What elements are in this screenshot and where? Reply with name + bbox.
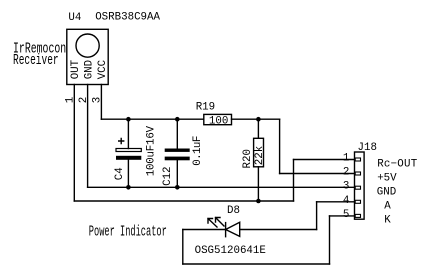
svg-text:OSRB38C9AA: OSRB38C9AA — [95, 12, 160, 24]
svg-text:R19: R19 — [196, 102, 215, 114]
connector J18 body — [355, 152, 365, 219]
LED D8 cathode bar — [225, 223, 227, 237]
J18 pin3 stub — [355, 186, 360, 189]
resistor R19 body — [204, 114, 232, 124]
svg-text:GND: GND — [377, 187, 396, 199]
C4 plus sign — [119, 139, 124, 144]
svg-text:1: 1 — [343, 153, 349, 165]
LED D8 triangle — [226, 222, 240, 236]
svg-text:GND: GND — [83, 60, 95, 79]
svg-text:3: 3 — [343, 181, 349, 193]
svg-text:5: 5 — [343, 209, 349, 221]
svg-text:C4: C4 — [114, 167, 126, 180]
wire cathode loop up to pin5 — [329, 216, 331, 264]
wire anode up to pin4 — [316, 202, 318, 230]
wire into J18 pin4 — [317, 201, 355, 203]
junction C12 on GND rail — [175, 185, 180, 190]
capacitor C12 top plate — [165, 149, 190, 152]
wire LED anode right — [240, 229, 317, 231]
D8 emission arrow 2 — [216, 218, 225, 227]
svg-text:100: 100 — [209, 115, 228, 127]
wire U4 pin2 vertical — [87, 85, 89, 188]
wire into J18 pin5 — [330, 215, 355, 217]
svg-text:22k: 22k — [254, 146, 266, 165]
wire LED cathode left — [183, 229, 226, 231]
junction C4 on GND rail — [126, 185, 131, 190]
svg-text:4: 4 — [343, 195, 349, 207]
svg-text:2: 2 — [343, 167, 349, 179]
svg-text:Rc−OUT: Rc−OUT — [377, 159, 418, 171]
wire OUT to connector pin1 vertical — [293, 160, 295, 202]
junction R20 bottom on OUT line — [256, 199, 261, 204]
svg-text:R20: R20 — [242, 149, 254, 168]
svg-text:C12: C12 — [162, 166, 174, 185]
wire U4 pin1 vertical — [73, 85, 75, 202]
svg-text:J18: J18 — [358, 142, 377, 154]
svg-text:OUT: OUT — [70, 59, 82, 79]
svg-text:100uF16V: 100uF16V — [145, 125, 157, 176]
svg-text:0.1uF: 0.1uF — [192, 136, 204, 166]
resistor R20 bottom lead — [257, 167, 259, 201]
svg-text:K: K — [384, 215, 391, 227]
U4 lens circle — [76, 34, 99, 57]
J18 pin4 stub — [355, 200, 360, 203]
wire into J18 pin1 — [294, 159, 355, 161]
svg-text:D8: D8 — [227, 205, 240, 217]
capacitor C4 negative plate — [116, 156, 141, 160]
wire into J18 pin2 — [280, 173, 355, 175]
IR receiver U4 body — [67, 29, 108, 84]
svg-text:A: A — [384, 201, 391, 213]
wire VCC rail to R19 — [101, 118, 203, 120]
capacitor C4 top lead — [127, 119, 129, 148]
resistor R20 top lead — [257, 119, 259, 138]
svg-text:U4: U4 — [68, 12, 81, 24]
D8 emission arrow 1 — [208, 219, 217, 228]
capacitor C12 bottom plate — [165, 157, 190, 161]
wire U4 pin3 vertical — [100, 85, 102, 120]
wire cathode loop bottom — [183, 263, 330, 265]
svg-text:Power Indicator: Power Indicator — [89, 225, 167, 241]
junction C4 on VCC rail — [126, 117, 131, 122]
capacitor C12 bottom lead — [176, 160, 178, 187]
wire OUT net horizontal — [74, 200, 293, 202]
svg-text:VCC: VCC — [97, 59, 109, 79]
J18 pin2 stub — [355, 172, 360, 175]
junction C12 on VCC rail — [175, 117, 180, 122]
svg-text:Receiver: Receiver — [13, 53, 59, 69]
wire R19 to +5V corner — [232, 118, 280, 120]
wire GND rail to J18 pin3 — [88, 186, 355, 188]
junction R20 top on +5V line — [256, 117, 261, 122]
capacitor C4 bottom lead — [127, 160, 129, 188]
J18 pin5 stub — [355, 214, 360, 217]
resistor R20 body — [254, 138, 264, 167]
wire cathode loop down — [182, 230, 184, 265]
J18 pin1 stub — [355, 158, 360, 161]
wire +5V vertical drop — [279, 119, 281, 173]
svg-text:+5V: +5V — [377, 173, 397, 185]
capacitor C12 top lead — [176, 119, 178, 148]
svg-text:OSG5120641E: OSG5120641E — [195, 245, 266, 257]
capacitor C4 positive plate — [116, 149, 141, 152]
